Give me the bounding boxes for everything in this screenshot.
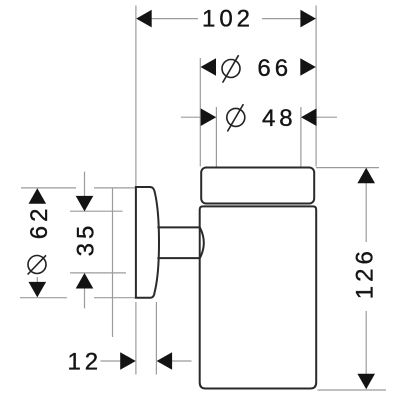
- dimension line 102: [150, 18, 302, 20]
- arrow 126 top (pointing up): [357, 168, 375, 184]
- dimension line 35 top tail: [84, 172, 86, 197]
- arrow 48 right (pointing left): [301, 108, 317, 126]
- extension line 48 right: [300, 107, 302, 167]
- arrow 62 bottom (pointing down): [29, 282, 47, 298]
- wall plate: [136, 187, 159, 298]
- dimension line 48 right stub: [315, 116, 337, 118]
- diameter symbol 66: [222, 55, 240, 82]
- cup body: [200, 206, 317, 388]
- arrow 66 right: [300, 58, 316, 76]
- arrow 48 left (pointing right): [201, 108, 217, 126]
- arrow 35 top (pointing down): [76, 196, 94, 212]
- dimension line 12 right stub: [170, 360, 192, 362]
- dimension line 48 left stub: [181, 116, 202, 118]
- arrow 35 bottom (pointing up): [76, 273, 94, 289]
- arm fill: [160, 228, 198, 257]
- extension line 126 top: [316, 167, 379, 169]
- arrow 102 right: [300, 10, 316, 28]
- diameter symbol 48: [227, 104, 245, 131]
- extension line 126 bottom: [318, 389, 387, 391]
- extension line 12 right: [155, 302, 157, 375]
- arm bottom line: [157, 257, 199, 259]
- dimension line 62: [36, 189, 38, 297]
- arrow 12 right (pointing left): [157, 352, 173, 370]
- arm end cap arc: [200, 227, 204, 258]
- extension line 35 top: [70, 210, 123, 212]
- dimension line 12 left stub: [101, 360, 123, 362]
- diameter symbol 62 (rotated label): [28, 255, 46, 274]
- svg-text:102: 102: [202, 5, 254, 32]
- wall line: [112, 188, 114, 337]
- arrow 102 left: [136, 10, 152, 28]
- extension line 66 left: [199, 58, 201, 167]
- arrow 126 bottom (pointing down): [357, 374, 375, 390]
- arrow 66 left: [201, 58, 217, 76]
- dimension line 35 bottom tail: [84, 288, 86, 308]
- text mask 62: [26, 203, 48, 277]
- extension line 12 left: [135, 302, 137, 375]
- text mask 102: [198, 8, 262, 29]
- dimension line 126: [365, 169, 367, 389]
- extension line 62 bottom: [20, 297, 67, 299]
- text mask 126: [351, 242, 377, 311]
- arm top line: [157, 226, 199, 228]
- svg-text:35: 35: [73, 222, 100, 257]
- svg-text:62: 62: [26, 205, 53, 240]
- arrow 12 left (pointing right): [120, 352, 136, 370]
- svg-text:48: 48: [262, 105, 297, 132]
- extension line 102/66 right: [315, 6, 317, 167]
- svg-text:12: 12: [67, 349, 102, 376]
- svg-text:126: 126: [352, 247, 379, 299]
- extension line 62 top: [21, 187, 76, 189]
- extension line 102 left: [135, 6, 137, 188]
- extension line 48 left: [215, 107, 217, 167]
- extension line 35 bottom: [70, 272, 126, 274]
- svg-text:66: 66: [257, 55, 292, 82]
- cup rim: [201, 168, 314, 204]
- arrow 62 top (pointing up): [29, 188, 47, 204]
